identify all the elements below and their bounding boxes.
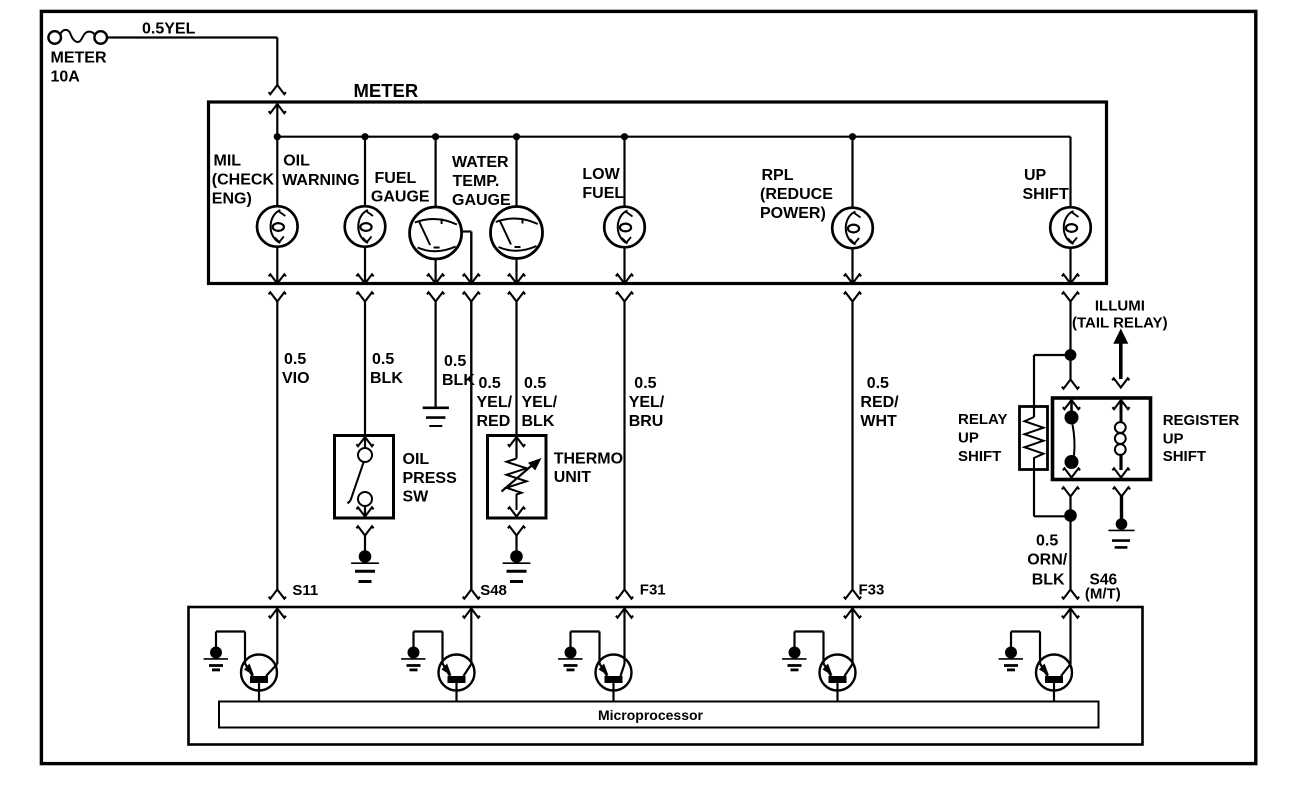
gauge FUEL GAUGE (410, 207, 462, 259)
indicator lamp LOW FUEL (604, 207, 645, 248)
bus wire inside METER (277, 137, 1070, 207)
RELAY UP SHIFT resistor box (1020, 407, 1048, 470)
transistor Q1 (241, 632, 277, 702)
tap wire from FUEL GAUGE right side (462, 232, 472, 284)
connector inside register box top right (1112, 400, 1129, 423)
svg-text:OIL: OIL (403, 451, 430, 468)
svg-text:SHIFT: SHIFT (1163, 448, 1206, 465)
svg-text:(M/T): (M/T) (1085, 586, 1121, 603)
svg-text:FUEL: FUEL (582, 185, 624, 202)
svg-text:0.5: 0.5 (372, 351, 394, 368)
svg-text:OIL: OIL (283, 153, 310, 170)
svg-text:10A: 10A (51, 69, 81, 86)
label RPL (REDUCE POWER) (760, 167, 833, 222)
svg-text:UP: UP (1024, 167, 1047, 184)
label LOW FUEL (582, 166, 624, 202)
connector below METER box top edge (269, 104, 286, 137)
label 0.5 ORN/BLK (1027, 533, 1068, 589)
svg-text:0.5: 0.5 (867, 375, 889, 392)
wire 0.5 YEL/RED to S48 (470, 302, 472, 590)
wire below LOW FUEL lamp (623, 247, 625, 284)
svg-text:UP: UP (958, 430, 979, 447)
relay resistor zigzag (1025, 417, 1044, 516)
svg-text:RELAY: RELAY (958, 411, 1007, 428)
label 0.5 YEL/RED (477, 375, 513, 430)
connector above METER box top (269, 85, 286, 94)
svg-text:Microprocessor: Microprocessor (598, 707, 704, 723)
connector meter/OIL out (356, 274, 373, 301)
svg-text:MIL: MIL (214, 153, 242, 170)
junction node LOW FUEL (621, 133, 628, 140)
wire 0.5 BLK to chassis ground (435, 302, 437, 408)
indicator lamp MIL (257, 206, 298, 247)
wire FUEL GAUGE column (435, 137, 437, 208)
oil pressure switch contacts (348, 448, 374, 517)
svg-text:F33: F33 (859, 582, 885, 599)
connector meter/FUEL sender out (463, 274, 480, 301)
svg-text:RED: RED (477, 413, 511, 430)
wire into transistor Q2 (470, 609, 472, 665)
OIL PRESS SW box (335, 436, 394, 519)
wire LOW FUEL column (623, 137, 625, 207)
wire into transistor Q4 (851, 609, 853, 665)
wire into transistor Q3 (623, 609, 625, 665)
wire 0.5 YEL/BRU to F31 (623, 302, 625, 590)
connector meter/MIL out (269, 274, 286, 301)
wire into transistor Q5 (1069, 609, 1071, 665)
label THERMO UNIT (554, 451, 623, 487)
svg-text:FUEL: FUEL (375, 170, 417, 187)
label 0.5 YEL/BLK (522, 375, 558, 430)
connector meter/RPL out (844, 274, 861, 301)
METER box (209, 102, 1107, 284)
wire 0.5 BLK to OIL PRESS SW (364, 302, 366, 436)
svg-text:0.5: 0.5 (284, 351, 306, 368)
ground under OIL PRESS SW (351, 526, 379, 581)
svg-text:TEMP.: TEMP. (453, 173, 500, 190)
connector below register box right (1113, 487, 1130, 519)
wire below OIL WARNING lamp (364, 247, 366, 284)
connector S48 into microprocessor box (463, 590, 480, 618)
connector meter/FUEL gnd out (427, 274, 444, 301)
connector F33 into microprocessor box (844, 590, 861, 618)
svg-text:0.5YEL: 0.5YEL (142, 21, 196, 38)
connector S46 into microprocessor box (1062, 590, 1079, 618)
junction node MIL (274, 133, 281, 140)
connector meter/UP SHIFT out (1062, 274, 1079, 301)
fuse METER 10A (48, 30, 107, 86)
label S46 (M/T) (1085, 572, 1121, 603)
branch wire to RELAY UP SHIFT resistor (1034, 355, 1071, 417)
svg-text:WATER: WATER (452, 154, 509, 171)
svg-text:METER: METER (51, 50, 107, 67)
junction node OIL WARNING (361, 133, 368, 140)
wire into transistor Q1 (276, 609, 278, 665)
THERMO UNIT box (488, 436, 547, 519)
junction node RPL (849, 133, 856, 140)
transistor Q2 ground (401, 632, 442, 670)
svg-text:RED/: RED/ (860, 394, 899, 411)
svg-text:UP: UP (1163, 431, 1184, 448)
wire 0.5 VIO to S11 (276, 302, 278, 590)
transistor Q2 (439, 632, 475, 702)
ILLUMI (TAIL RELAY) output arrow (1112, 329, 1129, 388)
indicator lamp OIL WARNING (345, 206, 386, 247)
label MIL (CHECK ENG) (212, 153, 275, 208)
svg-text:GAUGE: GAUGE (452, 192, 511, 209)
svg-text:BLK: BLK (370, 370, 403, 387)
svg-text:(REDUCE: (REDUCE (760, 186, 833, 203)
Microprocessor box (219, 702, 1099, 728)
svg-text:LOW: LOW (582, 166, 620, 183)
microprocessor outer box (189, 607, 1143, 745)
relay switch contacts (register) (1063, 411, 1080, 478)
thermo unit variable resistor (502, 458, 542, 517)
label OIL PRESS SW (403, 451, 458, 506)
wire below RPL lamp (851, 248, 853, 284)
label REGISTER UP SHIFT (1163, 412, 1240, 465)
svg-text:GAUGE: GAUGE (371, 188, 430, 205)
junction node upper (relay branch) (1065, 349, 1077, 361)
label RELAY UP SHIFT (958, 411, 1007, 465)
svg-text:F31: F31 (640, 582, 666, 599)
svg-text:SHIFT: SHIFT (958, 448, 1001, 465)
svg-text:0.5: 0.5 (444, 353, 466, 370)
junction node lower (relay branch return) (1064, 509, 1077, 522)
wire 0.5 RED/WHT to F33 (851, 302, 853, 590)
transistor Q1 ground (204, 632, 245, 670)
svg-text:ILLUMI: ILLUMI (1095, 298, 1145, 315)
relay coil (1112, 422, 1129, 477)
transistor Q5 ground (999, 632, 1040, 670)
wire below FUEL GAUGE (435, 259, 437, 284)
ground under THERMO UNIT (503, 526, 531, 581)
svg-text:0.5: 0.5 (1036, 533, 1058, 550)
junction node WATER TEMP (513, 133, 520, 140)
wire below MIL lamp (276, 247, 278, 284)
label 0.5 RED/WHT (860, 375, 899, 430)
svg-text:WARNING: WARNING (282, 172, 359, 189)
svg-text:(CHECK: (CHECK (212, 172, 275, 189)
connector meter/LOW FUEL out (616, 274, 633, 301)
label OIL WARNING (282, 153, 359, 190)
svg-text:0.5: 0.5 (479, 375, 501, 392)
connector above REGISTER UP SHIFT box (left) (1062, 380, 1079, 389)
connector meter/WATER out (508, 274, 525, 301)
connector below register box left (1062, 487, 1079, 510)
svg-text:RPL: RPL (762, 167, 794, 184)
wire below WATER TEMP gauge (515, 258, 517, 284)
wire below UP SHIFT lamp (1069, 248, 1071, 284)
svg-text:(TAIL RELAY): (TAIL RELAY) (1072, 315, 1168, 332)
label 0.5 BLK (370, 351, 403, 387)
svg-text:SHIFT: SHIFT (1023, 186, 1069, 203)
transistor Q3 (596, 632, 632, 702)
wire 0.5 YEL/BLK to THERMO UNIT (515, 302, 517, 436)
svg-text:BRU: BRU (629, 413, 664, 430)
gauge WATER TEMP GAUGE (491, 207, 543, 259)
label 0.5 YEL/BRU (629, 375, 665, 430)
wire UP SHIFT column below meter (1069, 302, 1071, 380)
connector S11 into microprocessor box (269, 590, 286, 618)
connector F31 into microprocessor box (616, 590, 633, 618)
label UP SHIFT (1023, 167, 1069, 203)
wire OIL WARNING column (364, 137, 366, 207)
label WATER TEMP. GAUGE (452, 154, 511, 209)
wire 0.5YEL from fuse to METER connector (107, 21, 277, 86)
connector inside OIL PRESS SW top (356, 437, 373, 448)
branch wire from relay resistor bottom (1034, 470, 1071, 517)
transistor Q4 (820, 632, 856, 702)
svg-text:WHT: WHT (860, 413, 897, 430)
svg-text:YEL/: YEL/ (477, 394, 513, 411)
svg-text:YEL/: YEL/ (629, 394, 665, 411)
svg-text:S48: S48 (480, 582, 507, 599)
junction node FUEL GAUGE (432, 133, 439, 140)
indicator lamp RPL (832, 208, 873, 249)
svg-text:ORN/: ORN/ (1027, 552, 1068, 569)
wire 0.5 ORN/BLK to S46 (1069, 516, 1071, 590)
svg-text:UNIT: UNIT (554, 469, 592, 486)
svg-text:BLK: BLK (522, 413, 555, 430)
svg-text:REGISTER: REGISTER (1163, 412, 1240, 429)
label 0.5 BLK (ground wire) (442, 353, 475, 389)
transistor Q5 (1036, 632, 1072, 702)
label ILLUMI (TAIL RELAY) (1072, 298, 1168, 332)
wire WATER TEMP column (515, 137, 517, 207)
svg-text:0.5: 0.5 (524, 375, 546, 392)
svg-text:METER: METER (354, 80, 419, 101)
svg-text:VIO: VIO (282, 370, 310, 387)
svg-text:ENG): ENG) (212, 191, 252, 208)
svg-text:THERMO: THERMO (554, 451, 623, 468)
svg-text:0.5: 0.5 (634, 375, 656, 392)
label 0.5 VIO (282, 351, 310, 387)
chassis ground under FUEL GAUGE wire (423, 408, 449, 426)
connector inside register box top left (1063, 400, 1080, 411)
svg-text:BLK: BLK (1032, 572, 1065, 589)
indicator lamp UP SHIFT (1050, 207, 1091, 248)
wire RPL column (851, 137, 853, 208)
transistor Q4 ground (782, 632, 823, 670)
svg-text:S11: S11 (292, 582, 318, 599)
label FUEL GAUGE (371, 170, 430, 205)
connector inside THERMO UNIT top (508, 437, 525, 459)
ground for relay coil (1108, 518, 1134, 547)
svg-text:POWER): POWER) (760, 205, 826, 222)
wire MIL column (276, 137, 278, 207)
transistor Q3 ground (558, 632, 599, 670)
svg-text:SW: SW (403, 489, 430, 506)
svg-text:YEL/: YEL/ (522, 394, 558, 411)
REGISTER UP SHIFT box (1053, 398, 1151, 480)
svg-text:PRESS: PRESS (403, 470, 458, 487)
